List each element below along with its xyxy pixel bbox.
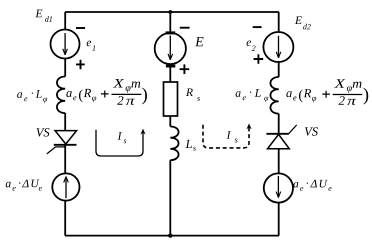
plus terminal label E [180,64,190,74]
wire right branch top [278,12,280,32]
source E [155,33,186,64]
label VS left [36,128,49,136]
label ae·Lphi right [236,89,269,102]
wire left coil to thyristor [64,113,66,131]
wire middle branch top [169,12,171,32]
label E_d2 [295,16,311,29]
label E_d1 [35,10,52,22]
current loop Is (right, dashed) [203,123,252,147]
source ae·dUe (right) [264,173,293,202]
label E (middle source) [195,37,203,46]
thyristor VS1 [47,131,77,154]
label e1 [87,41,95,51]
label ae·dUe right [293,180,331,191]
label ae(Rphi + Xphi m / 2 pi) right [286,79,368,105]
label VS right [305,127,318,135]
wire right circle to coil [278,62,280,77]
label Ls [185,140,195,151]
inductor ae·Lphi (left) [57,77,65,114]
label Is left [118,132,127,143]
inductor ae·Lphi (right) [270,77,278,114]
minus terminal label e1 [76,27,85,29]
terminal pad bottom of source E [166,65,175,68]
wire top bus [65,11,279,13]
source ae·dUe (left) [52,173,79,200]
wire E to resistor [169,68,171,83]
resistor Rs [164,82,178,116]
source e1 [51,30,80,59]
wire right coil to thyristor [278,114,280,134]
wire left branch top [64,12,66,30]
wire resistor to Ls [169,116,171,127]
terminal pad top of source E [166,31,176,34]
inductor Ls [170,127,178,161]
plus terminal label e2 [254,54,264,64]
label ae(Rphi + Xphi m / 2 pi) left [66,79,147,105]
label ae·dUe left [6,180,42,191]
minus terminal label e2 [253,26,262,28]
node top junction [168,10,172,14]
wire left source to bottom [64,201,66,236]
label e2 [247,40,256,50]
wire left circle to coil [64,59,66,77]
wire left thyristor to source [64,145,66,174]
source e2 [263,32,293,62]
wire Ls to bottom [169,160,171,236]
minus terminal label E [180,27,190,29]
wire right thyristor to source [278,149,280,174]
wire right source to bottom [278,203,280,236]
fraction bar right equation [333,94,363,96]
label Rs [186,88,200,100]
label Is right [227,131,238,142]
label ae·Lphi left [17,90,47,103]
node bottom junction [168,233,172,237]
thyristor VS2 [266,125,296,149]
fraction bar left equation [112,93,142,95]
plus terminal label e1 [76,60,85,69]
wire bottom bus [65,235,279,237]
current loop Is (left, solid) [96,129,146,156]
